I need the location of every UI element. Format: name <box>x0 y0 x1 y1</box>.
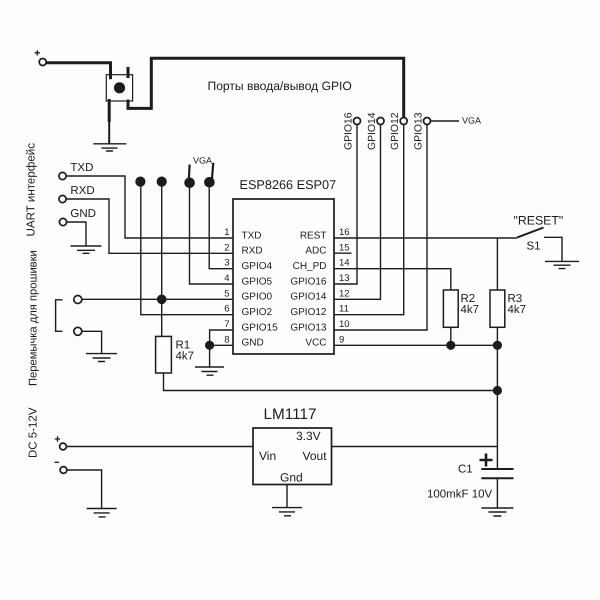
wire button SB1 to GPIO12 terminal (top route) <box>128 58 404 117</box>
svg-text:3.3V: 3.3V <box>296 429 321 443</box>
junction dot (R3/VCC) <box>493 341 502 350</box>
terminal RXD <box>59 185 95 203</box>
wire J1 to pin 5 <box>82 298 233 300</box>
svg-text:9: 9 <box>339 334 344 345</box>
jumper terminal J1 <box>74 296 82 304</box>
switch S1 "RESET" <box>514 214 564 262</box>
terminal GPIO14 <box>377 118 384 125</box>
terminal GPIO12 <box>400 118 407 125</box>
wire DC- to ground <box>67 470 102 509</box>
wire node A to pin 6 <box>141 184 233 315</box>
svg-text:14: 14 <box>339 258 350 269</box>
svg-text:16: 16 <box>339 227 350 238</box>
svg-text:TXD: TXD <box>242 230 262 241</box>
svg-text:UART интерфейс: UART интерфейс <box>25 143 38 237</box>
svg-text:4: 4 <box>224 273 229 284</box>
svg-text:5: 5 <box>224 288 229 299</box>
svg-text:1: 1 <box>224 227 229 238</box>
svg-text:"RESET": "RESET" <box>514 214 564 228</box>
svg-text:S1: S1 <box>527 241 541 253</box>
svg-text:ESP8266 ESP07: ESP8266 ESP07 <box>240 178 337 192</box>
svg-text:GPIO14: GPIO14 <box>367 112 378 150</box>
ground (U1 GND) <box>195 367 224 375</box>
wire REST rail to R3 <box>496 238 498 290</box>
wire GPIO14 terminal to pin 12 <box>334 125 381 300</box>
regulator U2 LM1117 <box>253 406 332 485</box>
svg-text:12: 12 <box>339 288 350 299</box>
pin labels U1 left <box>242 230 279 348</box>
svg-text:Vin: Vin <box>259 449 276 463</box>
pin numbers U1 right <box>339 227 350 345</box>
svg-text:6: 6 <box>224 304 229 315</box>
svg-text:8: 8 <box>224 334 229 345</box>
svg-text:GPIO16: GPIO16 <box>344 112 355 150</box>
wire Vout to C1/VCC node <box>332 446 498 448</box>
wire C1 to ground <box>496 478 498 508</box>
terminal GPIO16 <box>354 118 361 125</box>
wire GND terminal to ground <box>67 222 86 246</box>
ground (UART GND) <box>71 246 102 253</box>
svg-text:GPIO13: GPIO13 <box>290 322 327 333</box>
svg-text:4k7: 4k7 <box>461 304 480 316</box>
op IC U1 ESP8266 ESP07 <box>233 178 336 354</box>
jumper terminal J2 <box>74 327 82 335</box>
svg-text:CH_PD: CH_PD <box>293 261 327 272</box>
terminal TXD <box>59 162 94 180</box>
terminal GPIO13 <box>424 118 431 125</box>
ground (switch S1) <box>545 261 579 268</box>
junction dot (VCC / R1 / C1) <box>493 386 502 395</box>
wire DC+ to Vin <box>66 446 253 448</box>
junction dot (R2/VCC) <box>446 341 455 350</box>
svg-text:GPIO12: GPIO12 <box>290 307 327 318</box>
svg-text:GPIO5: GPIO5 <box>242 276 273 287</box>
wire R1 bottom to VCC node <box>164 373 498 391</box>
svg-text:10: 10 <box>339 319 350 330</box>
svg-text:4k7: 4k7 <box>176 351 195 363</box>
jumper bracket <box>56 300 63 332</box>
node dot B (GPIO0 header) <box>157 177 167 187</box>
svg-text:Gnd: Gnd <box>280 471 303 485</box>
node dot A (GPIO2 header) <box>135 177 145 187</box>
terminal DC + <box>55 436 67 450</box>
svg-text:GPIO2: GPIO2 <box>242 307 273 318</box>
svg-text:Vout: Vout <box>303 449 328 463</box>
svg-text:TXD: TXD <box>70 162 93 174</box>
svg-text:C1: C1 <box>458 464 473 476</box>
ground (under button SB1) <box>93 120 126 151</box>
wire U2 Gnd to ground <box>286 485 288 508</box>
svg-text:GPIO13: GPIO13 <box>414 112 425 150</box>
wire GPIO12 terminal to pin 11 <box>334 125 404 315</box>
ground (DC-) <box>87 509 117 517</box>
svg-text:ADC: ADC <box>305 246 326 257</box>
svg-text:GPIO15: GPIO15 <box>242 322 279 333</box>
wire TXD to pin 1 <box>66 176 233 238</box>
svg-text:LM1117: LM1117 <box>264 406 317 423</box>
wire + terminal to button SB1 <box>46 63 110 79</box>
svg-text:100mkF 10V: 100mkF 10V <box>427 489 493 501</box>
wire RXD to pin 2 <box>66 199 233 253</box>
junction dot (pin7/pin8) <box>205 341 214 350</box>
svg-text:RXD: RXD <box>242 246 263 257</box>
resistor R2 <box>443 290 479 327</box>
wire pin 16 REST to switch S1 <box>334 237 517 239</box>
node dot C (VGA pin) <box>184 178 195 189</box>
wire GPIO13 terminal to VGA <box>431 120 460 122</box>
svg-text:GPIO12: GPIO12 <box>390 112 401 150</box>
stub VGA D <box>212 163 213 180</box>
pin labels U1 right <box>290 230 327 348</box>
ground (jumper J2) <box>86 354 117 362</box>
terminal GND <box>59 208 96 226</box>
wire VCC node down to C1 and Vout <box>496 391 498 470</box>
stub pin 15 ADC (unconnected) <box>334 252 352 254</box>
svg-text:3: 3 <box>224 258 229 269</box>
svg-text:2: 2 <box>224 242 229 253</box>
svg-text:Перемычка для прошивки: Перемычка для прошивки <box>28 250 40 386</box>
wire pin 7 GPIO15 to pin 8 GND <box>210 330 233 345</box>
svg-text:VGA: VGA <box>193 155 212 165</box>
svg-text:VCC: VCC <box>305 338 326 349</box>
wire pin 9 VCC rail <box>334 345 497 390</box>
svg-text:DC 5-12V: DC 5-12V <box>28 407 40 458</box>
resistor R3 <box>490 290 526 327</box>
svg-text:GPIO0: GPIO0 <box>242 292 273 303</box>
stub VGA C <box>188 165 191 180</box>
terminal DC - <box>55 462 67 473</box>
svg-text:4k7: 4k7 <box>508 304 527 316</box>
wire node C to pin 4 <box>190 184 234 284</box>
svg-text:GND: GND <box>70 208 96 220</box>
svg-text:GND: GND <box>242 338 264 349</box>
wire node B down through pin5 row to R1 <box>161 184 163 336</box>
svg-text:REST: REST <box>300 230 327 241</box>
ground (U2 Gnd) <box>272 508 302 516</box>
wire J2 to ground <box>82 331 102 353</box>
terminal + (power button input) <box>35 50 47 65</box>
wire node D to pin 3 <box>209 184 233 269</box>
svg-text:VGA: VGA <box>462 116 481 126</box>
wire pin 14 CH_PD to R2 <box>334 269 451 290</box>
wire GPIO13 terminal to pin 10 <box>334 125 427 331</box>
svg-text:GPIO16: GPIO16 <box>290 276 327 287</box>
wire pin 8 GND to ground <box>210 345 233 367</box>
svg-text:7: 7 <box>224 319 229 330</box>
svg-text:13: 13 <box>339 273 350 284</box>
capacitor C1 <box>427 454 514 501</box>
svg-text:11: 11 <box>339 304 349 315</box>
wire GPIO16 terminal to pin 13 <box>334 125 357 285</box>
push button SB1 <box>106 67 132 122</box>
svg-text:GPIO14: GPIO14 <box>290 292 327 303</box>
svg-text:RXD: RXD <box>70 185 94 197</box>
svg-text:15: 15 <box>339 242 350 253</box>
svg-text:GPIO4: GPIO4 <box>242 261 273 272</box>
pin numbers U1 left <box>224 227 229 345</box>
ground (C1) <box>481 508 513 516</box>
junction dot (pin5 / R1) <box>157 295 167 305</box>
wire R3 bottom to VCC rail <box>496 327 498 345</box>
svg-text:Порты ввода/вывод GPIO: Порты ввода/вывод GPIO <box>208 79 352 93</box>
node dot D (VGA pin) <box>204 177 215 188</box>
wire R2 bottom to VCC rail <box>450 327 452 345</box>
resistor R1 <box>156 336 194 373</box>
